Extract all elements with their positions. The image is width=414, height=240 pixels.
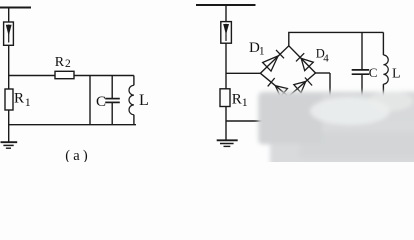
svg-text:1: 1	[25, 95, 31, 109]
svg-text:C: C	[369, 65, 378, 80]
svg-text:(a): (a)	[65, 148, 91, 162]
svg-text:C: C	[96, 94, 106, 110]
svg-text:4: 4	[323, 52, 329, 64]
svg-text:L: L	[139, 92, 149, 109]
svg-text:R: R	[232, 92, 242, 108]
svg-text:L: L	[392, 67, 401, 82]
svg-text:R: R	[55, 55, 65, 70]
svg-text:1: 1	[259, 46, 265, 58]
svg-text:2: 2	[65, 58, 71, 70]
svg-text:1: 1	[242, 95, 248, 109]
svg-text:R: R	[14, 91, 24, 107]
